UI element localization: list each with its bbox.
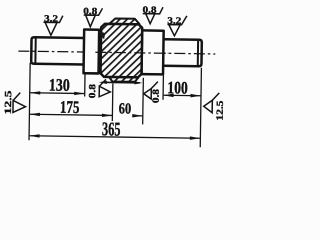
roughness symbol 3.2 on left shaft xyxy=(43,15,63,35)
svg-text:60: 60 xyxy=(119,100,132,117)
gear rim top edge line xyxy=(105,23,139,26)
top boss of rim xyxy=(109,18,140,24)
extension line at left shaft end x=30 xyxy=(29,63,30,140)
roughness symbol 0.8 on left collar top xyxy=(84,8,103,27)
dimension line 130 xyxy=(30,91,85,95)
roughness symbol 0.8 at bottom left of rim xyxy=(99,79,110,97)
svg-text:0.8: 0.8 xyxy=(152,89,162,103)
wire: horizontal centerline xyxy=(18,51,215,54)
svg-text:12.5: 12.5 xyxy=(216,100,226,120)
extension line at x=113 for 60 dim xyxy=(111,83,114,120)
gear rim hatched section body xyxy=(100,18,142,82)
bottom boss of rim xyxy=(109,77,139,82)
svg-text:175: 175 xyxy=(60,97,80,117)
hub left collar xyxy=(84,30,100,74)
svg-text:12.5: 12.5 xyxy=(4,90,14,115)
rim width measure bar with pointed ends xyxy=(99,81,143,85)
roughness symbol 12.5 at left end face xyxy=(13,92,26,112)
roughness symbol 0.8 at bottom right of rim xyxy=(144,81,158,99)
extension line at collar right face x=163.4 xyxy=(162,75,164,99)
extension line at right shaft end x=201.3 xyxy=(200,68,201,147)
gear rim outline xyxy=(100,24,142,78)
svg-text:0.8: 0.8 xyxy=(83,7,97,17)
svg-text:3.2: 3.2 xyxy=(167,16,181,26)
roughness symbol 3.2 on right shaft xyxy=(167,16,187,36)
svg-text:100: 100 xyxy=(167,77,188,97)
dimension line 100 xyxy=(163,94,201,98)
dimension line 60 (short arrow segment) xyxy=(132,114,143,118)
right shaft journal outline xyxy=(163,39,202,66)
left shaft journal outline xyxy=(31,37,84,64)
dark relief notch between left collar and gear xyxy=(99,31,106,39)
dimension line 365 xyxy=(29,134,200,140)
dimension line 175 xyxy=(29,113,112,118)
svg-text:3.2: 3.2 xyxy=(44,14,58,24)
svg-text:0.8: 0.8 xyxy=(88,84,98,98)
extension line at collar left face x=85 xyxy=(84,74,86,96)
roughness symbol 0.8 on gear rim top xyxy=(143,7,163,24)
svg-text:130: 130 xyxy=(49,75,70,95)
extension line at x=143.4 for 60 dim xyxy=(142,78,145,124)
hub right collar xyxy=(142,30,164,74)
svg-text:0.8: 0.8 xyxy=(142,6,156,16)
centerline segment across hub xyxy=(95,52,168,53)
svg-text:365: 365 xyxy=(102,119,121,140)
roughness symbol 12.5 at right end face xyxy=(204,93,220,113)
